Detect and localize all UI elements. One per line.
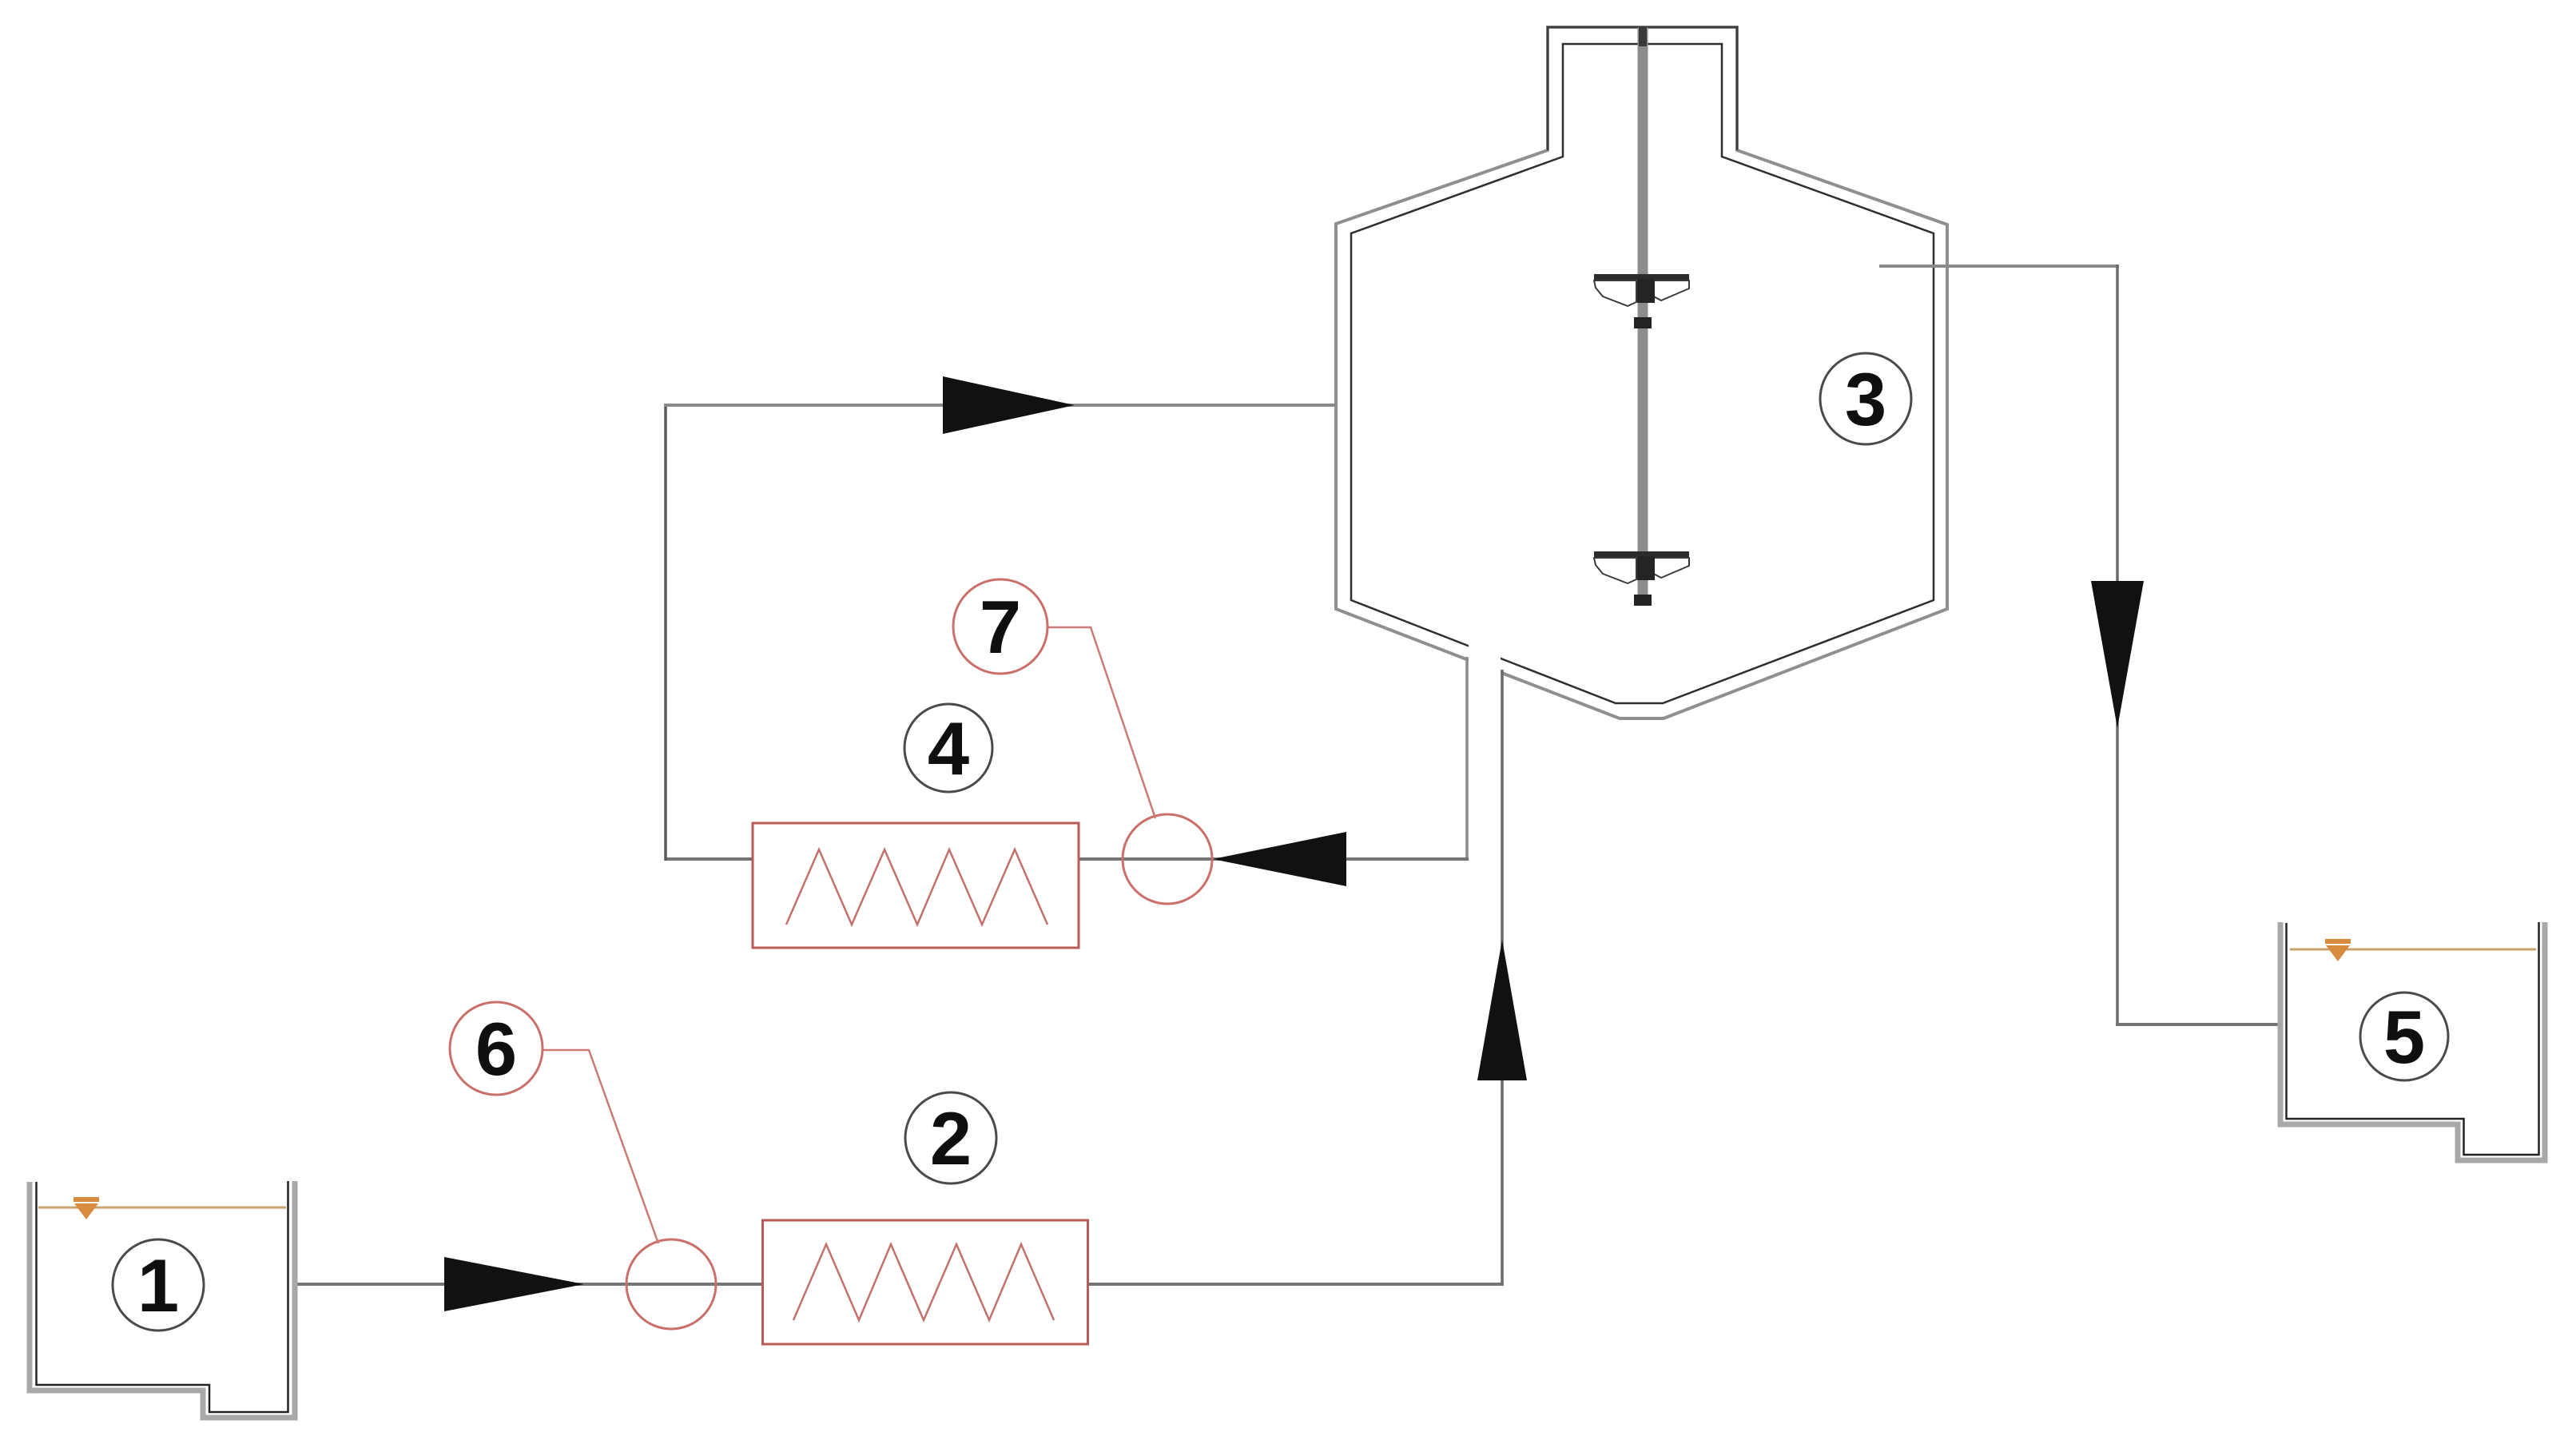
flow arrow down on outlet drop [2091,581,2144,728]
leader line label 6 [543,1050,658,1243]
pipe: vessel overflow outlet [1879,265,2119,268]
agitator impeller lower [1594,551,1689,606]
leader line label 7 [1047,627,1155,818]
svg-text:3: 3 [1845,357,1886,441]
tank T1 level symbol [74,1197,99,1219]
svg-text:7: 7 [980,585,1021,669]
label circle 2 [905,1092,996,1183]
vessel R3 outer wall [1336,27,1947,718]
heater E2 body [763,1220,1088,1344]
label circle 5 [2360,993,2448,1080]
flow arrow right on feed line [444,1257,584,1311]
pipe: recycle return top line into vessel [664,404,1336,407]
vessel R3 bottom nozzle opening [1469,642,1501,677]
tank T1 liquid level line [38,1207,286,1209]
pipe: feed line tank1 to heater E2 [297,1283,764,1286]
flow arrow left into pump P7 [1213,832,1346,886]
tank T1 wall inner black [37,1181,288,1412]
vessel R3 inner wall [1351,44,1934,703]
tank T5 liquid level line [2290,949,2536,951]
pipe: recycle line to pump P7 and cooler E4 [1079,857,1469,861]
pipe: recycle left riser [664,404,667,861]
pipe: cooler E4 outlet [666,857,753,861]
tank T1 wall gray [30,1181,295,1418]
svg-text:1: 1 [137,1243,179,1327]
pipe: feed riser into vessel [1501,670,1504,1284]
pump/valve circle 7 on recycle line [1123,814,1212,904]
label circle 4 [904,704,992,792]
label circle 7 [953,579,1047,674]
tank T5 level symbol [2325,939,2351,961]
tank T5 wall inner black [2287,922,2539,1155]
agitator shaft [1638,27,1648,606]
cooler E4 body [753,823,1079,948]
flow arrow up on feed riser [1477,940,1527,1080]
pipe: tank5 inlet [2116,1023,2278,1026]
pipe: feed line E2 to riser [1088,1283,1504,1286]
cooler E4 coil zigzag [786,849,1047,925]
agitator shaft top coupling [1639,27,1647,46]
svg-text:2: 2 [930,1096,972,1180]
pump/valve circle 6 on feed line [626,1239,716,1329]
label circle 1 [113,1239,204,1331]
svg-text:5: 5 [2383,995,2425,1079]
agitator impeller upper [1594,274,1689,328]
flow arrow right on recycle return line [943,376,1075,434]
pipe: recycle outlet from vessel bottom [1465,657,1469,859]
heater E2 coil zigzag [793,1244,1054,1320]
tank T5 wall gray [2280,922,2545,1160]
label circle 6 [450,1002,543,1095]
vessel R3 neck outline dark overlay [1548,27,1737,150]
pipe: outlet drop to tank5 [2116,265,2119,1026]
label circle 3 [1820,353,1911,444]
svg-text:4: 4 [928,706,969,790]
svg-text:6: 6 [475,1007,517,1091]
